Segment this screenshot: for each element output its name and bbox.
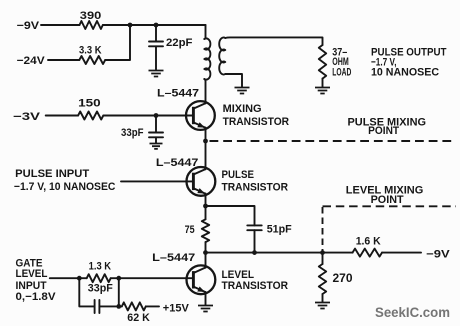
- svg-text:−24V: −24V: [17, 55, 46, 67]
- svg-text:POINT: POINT: [371, 194, 404, 206]
- svg-text:L–5447: L–5447: [152, 252, 195, 264]
- svg-text:3.3 K: 3.3 K: [79, 45, 102, 57]
- svg-text:10 NANOSEC: 10 NANOSEC: [371, 67, 439, 79]
- svg-text:−3V: −3V: [13, 111, 41, 123]
- svg-text:PULSE: PULSE: [222, 169, 255, 181]
- svg-text:POINT: POINT: [368, 125, 399, 137]
- svg-text:TRANSISTOR: TRANSISTOR: [222, 280, 289, 292]
- svg-text:75: 75: [185, 224, 195, 236]
- svg-text:33pF: 33pF: [121, 127, 144, 139]
- svg-text:SeekIC.com: SeekIC.com: [375, 304, 450, 320]
- svg-text:L–5447: L–5447: [157, 88, 199, 100]
- svg-text:270: 270: [333, 271, 353, 285]
- svg-text:0,−1.8V: 0,−1.8V: [16, 291, 57, 303]
- svg-text:TRANSISTOR: TRANSISTOR: [222, 182, 289, 194]
- svg-text:390: 390: [80, 10, 102, 22]
- svg-text:51pF: 51pF: [267, 223, 292, 235]
- svg-text:+15V: +15V: [163, 302, 190, 314]
- svg-text:1.3 K: 1.3 K: [89, 260, 112, 272]
- svg-text:22pF: 22pF: [166, 37, 193, 49]
- svg-text:LEVEL: LEVEL: [16, 268, 48, 280]
- svg-text:−9V: −9V: [17, 20, 40, 32]
- svg-text:150: 150: [78, 98, 101, 110]
- svg-text:1.6 K: 1.6 K: [356, 235, 381, 247]
- svg-text:−9V: −9V: [426, 248, 450, 260]
- svg-text:PULSE INPUT: PULSE INPUT: [15, 168, 89, 180]
- svg-text:MIXING: MIXING: [223, 103, 262, 115]
- svg-text:TRANSISTOR: TRANSISTOR: [223, 116, 290, 128]
- svg-text:33pF: 33pF: [88, 283, 113, 295]
- svg-text:LOAD: LOAD: [332, 67, 351, 79]
- svg-text:L–5447: L–5447: [156, 157, 199, 169]
- svg-text:−1.7 V, 10 NANOSEC: −1.7 V, 10 NANOSEC: [14, 181, 116, 193]
- svg-text:62 K: 62 K: [127, 312, 150, 324]
